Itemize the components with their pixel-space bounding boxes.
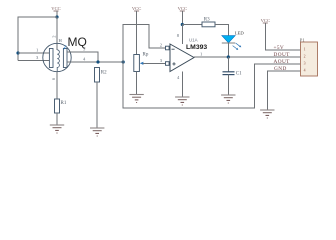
wire pin 5 [67,52,98,62]
power VCC3 [178,6,187,25]
ground G2 [90,128,104,136]
sensor MQ circle [43,43,71,71]
svg-text:1: 1 [304,47,306,51]
power VCC2 [132,6,141,55]
wire pin 2 H [56,17,58,50]
node A junction [122,60,125,63]
ground G4 [175,97,189,105]
svg-text:R2: R2 [101,71,107,76]
wire node A down to AOUT run [123,62,300,108]
wire R3 to LED [215,25,229,36]
power VCC4 [261,18,270,23]
wire VCC3 rail to R3 [182,24,202,26]
RP wiper arrow [140,62,144,65]
wire VCC2 rail [123,25,165,63]
ground G1 [50,125,64,133]
node output junction [227,55,230,58]
node sensor output junction [96,60,99,63]
svg-text:VCC: VCC [178,6,187,11]
op-amp U1A [170,44,194,72]
capacitor C1 [223,72,235,75]
wire GND pin [267,71,300,110]
svg-text:2: 2 [304,54,306,58]
wire pin 8 [181,25,183,45]
svg-text:+5V: +5V [274,45,285,51]
svg-text:U1A: U1A [189,38,198,43]
wire output pin 1 [194,56,301,58]
svg-text:R1: R1 [61,101,67,106]
svg-text:LM393: LM393 [186,44,207,51]
node pins 1-3 junction [16,51,19,54]
svg-text:DOUT: DOUT [274,52,291,58]
svg-text:VCC: VCC [261,18,270,23]
plus input [172,62,175,65]
potentiometer RP [134,55,140,72]
wire pin 1 [18,52,50,54]
resistor R1 [55,99,60,113]
wire R1 to ground [56,113,58,125]
ground G3 [129,95,143,103]
wire pin 3 [18,60,50,62]
wire RP to ground [136,72,138,95]
wire top-left rail [18,17,57,61]
pin 3 box [166,62,170,66]
LED D1 [222,36,242,50]
wire R2 to ground [96,82,98,128]
svg-text:C1: C1 [236,72,242,77]
node VCC3 junction [181,23,184,26]
wire LED to output node [228,43,230,57]
power VCC1 [51,6,60,17]
MQ blue arrow [64,45,67,49]
node VCC1 junction [55,15,58,18]
svg-text:4: 4 [304,68,306,72]
MQ right electrode [63,49,67,68]
svg-text:AOUT: AOUT [274,59,291,65]
wire pin 4 [67,61,123,63]
ground G6 [260,110,274,118]
wire C1 to ground [227,75,229,95]
wire VCC4 to +5V pin [265,23,300,50]
svg-text:3: 3 [304,61,306,65]
wire pin 4 [181,72,183,98]
svg-text:R3: R3 [204,18,210,23]
wire output node to C1 [227,57,229,72]
resistor R3 [202,22,215,27]
svg-text:Rp: Rp [143,53,149,58]
svg-text:P1: P1 [300,37,306,42]
MQ left electrode [49,49,53,68]
minus input [172,48,175,50]
resistor R2 [95,68,100,83]
ground G5 [221,95,235,103]
wire pin 6 [56,72,58,99]
svg-text:LED: LED [235,31,245,36]
svg-text:VCC: VCC [132,6,141,11]
MQ heater coil [57,50,59,72]
wire wiper to pin 3 [143,63,165,65]
pin 2 box [166,46,170,50]
connector P1 [300,37,318,76]
svg-text:GND: GND [274,66,287,72]
svg-text:VCC: VCC [51,6,60,11]
